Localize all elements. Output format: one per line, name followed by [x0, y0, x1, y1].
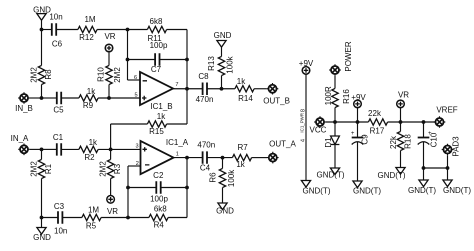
- wire bus to C9: [357, 122, 359, 138]
- supply +9V (filter): [351, 93, 366, 108]
- wire C4 to R7: [207, 157, 232, 159]
- junction (VR/R18): [399, 120, 403, 124]
- ground GND (below R6): [216, 203, 234, 216]
- svg-text:C5: C5: [53, 105, 64, 114]
- wire to GND (PAD3): [447, 168, 449, 180]
- svg-text:C6: C6: [52, 39, 63, 48]
- ground GND (above R13): [214, 31, 232, 47]
- wire to R11 left: [128, 29, 148, 31]
- svg-text:IC1_B: IC1_B: [150, 102, 172, 111]
- capacitor C9 (electrolytic): [351, 131, 370, 145]
- ground GND(T) (below C9): [353, 181, 381, 195]
- svg-text:3: 3: [135, 143, 138, 149]
- svg-text:R17: R17: [370, 127, 385, 136]
- svg-text:2M2: 2M2: [99, 161, 108, 177]
- wire C9 to GND: [357, 142, 359, 182]
- wire D1 to GND: [334, 145, 336, 169]
- junction (R13 bottom): [220, 87, 224, 91]
- svg-text:1k: 1k: [236, 160, 245, 169]
- supply +9V (IC1 power): [299, 59, 314, 74]
- svg-text:R7: R7: [237, 143, 248, 152]
- svg-text:OUT_B: OUT_B: [263, 97, 290, 106]
- wire R15 right: [167, 123, 187, 125]
- junction node (R9/R10/pin5): [107, 96, 111, 100]
- wire R1 bottom lead: [41, 179, 43, 218]
- svg-text:PAD3: PAD3: [452, 136, 461, 157]
- terminal IN_A: [18, 144, 30, 156]
- svg-text:GND: GND: [33, 233, 51, 242]
- wire feedback right vertical: [186, 30, 188, 89]
- wire op-amp pin 2: [128, 165, 141, 167]
- resistor R9 1k: [79, 87, 98, 110]
- wire R3 top lead: [110, 149, 112, 159]
- resistor R17 22k: [368, 109, 388, 136]
- svg-text:POWER: POWER: [344, 41, 353, 71]
- junction output node B: [185, 87, 189, 91]
- svg-text:10n: 10n: [54, 226, 67, 235]
- junction (R6 top): [221, 156, 225, 160]
- wire IN_B to node: [30, 97, 42, 99]
- svg-text:1M: 1M: [88, 205, 99, 214]
- svg-text:VREF: VREF: [436, 105, 457, 114]
- resistor R7 1k: [232, 143, 251, 169]
- junction node (R2/R3/R15/pin3): [109, 148, 113, 152]
- svg-text:R14: R14: [238, 94, 253, 103]
- wire to GND (bottom left): [41, 218, 43, 228]
- svg-text:VR: VR: [398, 90, 409, 99]
- wire R10 bottom lead: [108, 85, 110, 98]
- capacitor C7 100p: [150, 41, 168, 74]
- resistor R18 22k (vertical): [389, 131, 413, 150]
- svg-text:R3: R3: [113, 163, 122, 174]
- svg-text:R10: R10: [97, 67, 106, 82]
- svg-text:2M2: 2M2: [113, 67, 122, 83]
- svg-text:GND(T): GND(T): [317, 170, 345, 179]
- wire +9V to bus: [357, 108, 359, 122]
- svg-text:470n: 470n: [196, 95, 214, 104]
- wire bus to R18: [400, 122, 402, 131]
- junction (pin2 vert/C2): [126, 186, 130, 190]
- resistor R12 1M: [78, 15, 97, 42]
- capacitor C10 (electrolytic): [418, 131, 439, 148]
- wire GND stem to node: [41, 20, 43, 29]
- svg-text:5: 5: [134, 92, 137, 98]
- wire R12 to feedback node: [97, 29, 127, 31]
- svg-text:100k: 100k: [227, 169, 236, 187]
- wire ground link: [424, 167, 448, 169]
- wire node to C6: [42, 29, 52, 31]
- svg-text:1M: 1M: [84, 15, 95, 24]
- svg-text:IN_A: IN_A: [11, 134, 29, 143]
- wire R11 right: [167, 29, 187, 31]
- svg-text:7: 7: [175, 82, 178, 88]
- terminal IN_B: [18, 92, 30, 104]
- svg-text:GND(T): GND(T): [353, 186, 381, 195]
- resistor R5 1M: [82, 205, 101, 230]
- svg-text:R15: R15: [149, 127, 164, 136]
- capacitor C2 100p: [150, 171, 168, 203]
- junction node (IN_B/R8/C5): [40, 96, 44, 100]
- ground GND(T) (below C10): [408, 180, 436, 195]
- ground GND(T) (below D1): [317, 168, 345, 179]
- wire A feedback right vertical: [186, 158, 188, 218]
- wire bus right: [388, 121, 436, 123]
- terminal VREF: [434, 116, 446, 128]
- supply VR (above R10): [104, 32, 115, 52]
- wire C7 right: [160, 59, 188, 61]
- svg-text:VR: VR: [107, 207, 118, 216]
- svg-text:C2: C2: [153, 171, 164, 180]
- ground GND (top left): [33, 5, 51, 20]
- terminal OUT_B: [267, 83, 279, 95]
- svg-text:1: 1: [176, 152, 179, 158]
- svg-text:8: 8: [300, 109, 306, 112]
- wire R9 to op-amp pin 5: [98, 97, 140, 99]
- svg-text:1k: 1k: [237, 77, 246, 86]
- wire op-amp output to C8: [173, 88, 203, 90]
- svg-text:GND(T): GND(T): [443, 186, 471, 195]
- svg-text:D1: D1: [324, 137, 333, 148]
- junction (+9V/C9): [356, 120, 360, 124]
- resistor R16 100R (vertical): [324, 86, 351, 108]
- wire R8 bottom lead: [41, 85, 43, 98]
- wire IN_A to node: [30, 148, 42, 150]
- wire PAD3 down: [447, 155, 449, 168]
- svg-text:C4: C4: [200, 163, 211, 172]
- wire R1 top lead: [41, 149, 43, 159]
- wire R6 to GND: [222, 188, 224, 203]
- junction (C10 top): [422, 120, 426, 124]
- wire VR to R10: [108, 52, 110, 66]
- capacitor C4 470n: [197, 141, 215, 173]
- terminal POWER: [329, 64, 341, 76]
- resistor R6 100k (vertical): [209, 168, 236, 187]
- svg-text:R8: R8: [44, 69, 53, 80]
- svg-text:IC1_PWR: IC1_PWR: [300, 113, 305, 133]
- wire to R4 left: [128, 217, 149, 219]
- resistor R3 2M2 (vertical): [99, 159, 123, 178]
- svg-text:GND(T): GND(T): [303, 186, 331, 195]
- svg-text:100k: 100k: [226, 55, 235, 73]
- ground GND (bottom left): [33, 228, 51, 243]
- svg-text:C9: C9: [361, 134, 370, 145]
- svg-text:22k: 22k: [368, 109, 382, 118]
- wire R3 to VR: [110, 179, 112, 196]
- svg-text:1k: 1k: [157, 112, 166, 121]
- wire C2 right: [161, 187, 187, 189]
- wire bus to D1: [334, 122, 336, 136]
- op-amp U IC1_A: [141, 138, 189, 174]
- wire node to C5: [42, 97, 57, 99]
- junction (C7 right): [185, 58, 189, 62]
- ground GND(T) (below PAD3): [443, 180, 471, 195]
- wire C5 to R9: [61, 97, 79, 99]
- svg-text:100p: 100p: [150, 194, 168, 203]
- junction (R16/D1): [333, 120, 337, 124]
- diode D1: [324, 136, 339, 148]
- junction (C10 bottom): [422, 166, 426, 170]
- svg-text:IN_B: IN_B: [15, 104, 33, 113]
- wire R15 to A input node: [110, 124, 112, 149]
- svg-text:R6: R6: [209, 172, 218, 183]
- ground GND(T) (below R18): [378, 168, 406, 180]
- wire R5 to node: [101, 217, 128, 219]
- svg-text:OUT_A: OUT_A: [269, 139, 296, 148]
- wire R6 top lead: [222, 158, 224, 169]
- wire R15 to B output node: [186, 89, 188, 124]
- junction (R12/R11/feedback): [126, 28, 130, 32]
- svg-text:GND(T): GND(T): [378, 171, 406, 180]
- wire to op-amp pin 6: [128, 79, 141, 81]
- resistor R13 100k (vertical): [207, 55, 234, 75]
- svg-text:C7: C7: [151, 65, 162, 74]
- svg-text:1k: 1k: [87, 87, 96, 96]
- wire R7 to OUT_A: [252, 157, 267, 159]
- junction output node A: [185, 156, 189, 160]
- svg-text:GND: GND: [214, 31, 232, 40]
- wire C2 left: [128, 187, 156, 189]
- junction (C7 left): [126, 58, 130, 62]
- wire R18 to GND: [400, 151, 402, 168]
- svg-text:470n: 470n: [197, 141, 215, 150]
- terminal OUT_A: [267, 152, 279, 164]
- resistor R2 1k: [79, 138, 98, 162]
- wire C7 left: [128, 59, 156, 61]
- svg-text:R5: R5: [86, 221, 97, 230]
- supply VR (reference): [397, 90, 410, 107]
- wire POWER to R16: [334, 76, 336, 89]
- wire IC1_PWR pin 8 to pin 4: [305, 74, 307, 180]
- wire C8 to R14: [207, 88, 235, 90]
- terminal VCC: [314, 116, 326, 128]
- wire C6 to R12: [56, 29, 78, 31]
- op-amp U IC1_B: [140, 72, 173, 111]
- svg-text:VR: VR: [104, 32, 115, 41]
- svg-text:R12: R12: [79, 33, 94, 42]
- svg-text:R11: R11: [147, 34, 162, 43]
- supply VR (below R3): [107, 196, 118, 216]
- junction (PAD3 bottom): [446, 166, 450, 170]
- junction (R5/R4/pin2 vert): [126, 216, 130, 220]
- svg-text:C3: C3: [54, 202, 65, 211]
- junction (R1/C3/GND): [40, 216, 44, 220]
- wire R8 top lead: [41, 30, 43, 66]
- resistor R10 2M2 (vertical): [97, 65, 122, 84]
- capacitor C6 10n: [49, 12, 62, 48]
- wire VR to bus: [400, 108, 402, 122]
- wire bus to C10: [423, 122, 425, 138]
- wire R15 left: [111, 123, 148, 125]
- capacitor C5: [53, 92, 64, 115]
- svg-text:2M2: 2M2: [29, 161, 38, 177]
- svg-text:GND: GND: [216, 207, 234, 216]
- wire R2 to op-amp pin 3: [98, 148, 140, 150]
- junction (C2 right): [185, 186, 189, 190]
- svg-text:22k: 22k: [389, 135, 398, 149]
- wire pin2 vertical to R4 line: [127, 166, 129, 218]
- svg-text:1k: 1k: [89, 138, 98, 147]
- wire R14 to OUT_B: [254, 88, 267, 90]
- wire R13 bottom lead: [221, 76, 223, 89]
- svg-text:R18: R18: [403, 134, 412, 149]
- svg-text:10n: 10n: [49, 12, 62, 21]
- wire C1 to R2: [61, 148, 79, 150]
- wire feedback left vertical: [127, 30, 129, 81]
- svg-text:IC1_A: IC1_A: [166, 138, 189, 147]
- svg-text:6k8: 6k8: [154, 204, 167, 213]
- svg-text:GND(T): GND(T): [408, 186, 436, 195]
- svg-text:R4: R4: [154, 220, 165, 229]
- resistor R15 1k: [147, 112, 166, 136]
- wire node to C1: [42, 148, 57, 150]
- resistor R4 6k8: [149, 204, 168, 229]
- svg-text:VCC: VCC: [310, 126, 327, 135]
- svg-text:6k8: 6k8: [150, 17, 163, 26]
- svg-text:C8: C8: [198, 72, 209, 81]
- wire op-amp A output to C4: [174, 157, 203, 159]
- svg-text:R1: R1: [44, 163, 53, 174]
- svg-text:2M2: 2M2: [29, 67, 38, 83]
- ground GND(T) (IC1_PWR pin 4): [301, 181, 330, 196]
- wire VCC bus left: [326, 121, 369, 123]
- svg-text:R2: R2: [84, 153, 95, 162]
- wire to GND (C10): [423, 168, 425, 180]
- capacitor C1: [53, 133, 64, 156]
- svg-text:100R: 100R: [324, 86, 333, 105]
- svg-text:R9: R9: [83, 101, 94, 110]
- terminal PAD3: [442, 144, 454, 156]
- wire node to C3: [42, 217, 59, 219]
- svg-text:R13: R13: [207, 56, 216, 71]
- resistor R14 1k: [235, 77, 254, 103]
- svg-text:+: +: [351, 131, 355, 137]
- junction node (IN_A/R1/C1): [40, 148, 44, 152]
- capacitor C8 470n: [196, 72, 214, 104]
- capacitor C3 10n: [54, 202, 67, 236]
- svg-text:R16: R16: [342, 89, 351, 104]
- wire GND to R13: [221, 47, 223, 56]
- svg-text:4: 4: [300, 139, 306, 142]
- wire C10 to ground node: [423, 142, 425, 169]
- svg-text:C1: C1: [53, 133, 64, 142]
- resistor R8 2M2 (vertical): [29, 65, 53, 84]
- svg-text:C10: C10: [430, 132, 439, 147]
- resistor R11 6k8: [147, 17, 166, 43]
- wire R16 to bus: [334, 108, 336, 122]
- junction node (GND/C6/R8): [40, 28, 44, 32]
- wire R4 right: [168, 217, 187, 219]
- resistor R1 2M2 (vertical): [29, 159, 53, 178]
- wire C3 to R5: [62, 217, 82, 219]
